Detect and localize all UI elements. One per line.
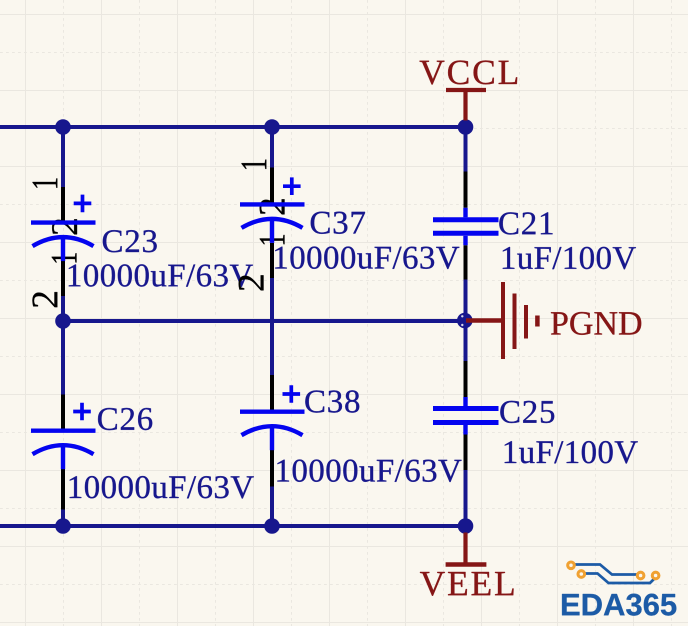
C23 pin 1 lead bbox=[61, 187, 65, 223]
PGND lead bbox=[466, 318, 503, 322]
junction dot bottom col1 bbox=[55, 518, 71, 534]
VEEL stem bbox=[463, 533, 467, 565]
capacitor C23 bbox=[31, 178, 253, 307]
VEEL label bbox=[420, 572, 514, 596]
C25 top stem bbox=[463, 397, 467, 406]
logo pad 2 bbox=[578, 571, 585, 578]
capacitor C38 bbox=[240, 375, 461, 487]
C38 curved plate bbox=[242, 426, 303, 435]
wire top horizontal net bbox=[0, 125, 466, 129]
junction dot bottom col3 bbox=[458, 518, 474, 534]
C21 pin 1 lead bbox=[464, 172, 468, 208]
C23 value 10000uF/63V bbox=[69, 264, 253, 286]
C26 curved plate bbox=[33, 445, 94, 454]
C23 pin name 1 bbox=[52, 253, 77, 262]
C23 curved plate bbox=[33, 237, 94, 246]
C23 positive plate bbox=[31, 220, 96, 224]
C37 value 10000uF/63V bbox=[275, 247, 459, 269]
C26 designator bbox=[98, 408, 152, 430]
C38 designator bbox=[305, 390, 359, 412]
PGND bar 4 bbox=[535, 316, 540, 327]
C37 pin 1 lead bbox=[270, 168, 274, 205]
power port VEEL bbox=[420, 533, 514, 596]
wire middle horizontal net bbox=[63, 319, 466, 323]
C26 polarity plus bbox=[73, 403, 91, 421]
C38 polarity plus bbox=[283, 385, 301, 403]
C25 value 1uF/100V bbox=[505, 441, 638, 463]
wire col1 top segment bbox=[61, 125, 65, 187]
C38 plate stem bbox=[270, 427, 274, 451]
power port PGND bbox=[466, 282, 641, 359]
PGND label bbox=[551, 312, 641, 335]
junction dot top col2 bbox=[264, 119, 280, 135]
C37 curved plate bbox=[242, 219, 303, 228]
C37 positive plate bbox=[240, 202, 305, 206]
capacitor C25 bbox=[433, 361, 638, 470]
C26 pin 2 lead bbox=[61, 469, 65, 510]
PGND bar 3 bbox=[524, 305, 528, 339]
C25 bottom plate bbox=[433, 420, 499, 425]
capacitor C37 bbox=[239, 160, 460, 291]
C25 top plate bbox=[433, 406, 499, 411]
C37 polarity plus bbox=[283, 177, 301, 195]
C26 pin 1 lead bbox=[61, 395, 65, 431]
wire col2 top segment bbox=[270, 125, 274, 168]
wire col1 bottom segment bbox=[61, 510, 65, 527]
VCCL label bbox=[420, 61, 518, 85]
junction dot middle col1 bbox=[55, 313, 71, 329]
C23 designator bbox=[103, 230, 157, 252]
logo wordmark EDA365 bbox=[562, 594, 676, 616]
C26 value 10000uF/63V bbox=[70, 476, 254, 498]
C23 polarity plus bbox=[74, 195, 92, 213]
C23 plate stem bbox=[61, 238, 65, 262]
C21 value 1uF/100V bbox=[503, 247, 636, 269]
power port VCCL bbox=[420, 61, 518, 121]
C37 plate stem bbox=[270, 219, 274, 243]
wire col3 top segment bbox=[464, 125, 468, 172]
C23 pin number 1 bbox=[33, 178, 58, 187]
wire col3 middle segment bbox=[464, 280, 468, 362]
logo pad 1 bbox=[568, 562, 575, 569]
C37 pin 2 lead bbox=[270, 243, 274, 278]
C26 positive plate bbox=[31, 429, 96, 433]
PGND bar 1 bbox=[501, 282, 505, 359]
wire col2 middle segment bbox=[270, 278, 274, 375]
VEEL bar bbox=[446, 562, 487, 567]
C37 pin name 2 bbox=[260, 199, 285, 214]
C37 designator bbox=[311, 212, 365, 234]
C38 pin 1 lead bbox=[270, 375, 274, 412]
C38 pin 2 lead bbox=[270, 450, 274, 487]
capacitor C21 bbox=[433, 172, 636, 280]
C37 pin number 1 bbox=[242, 160, 267, 169]
VCCL stem bbox=[463, 90, 467, 121]
junction ring middle col3 bbox=[457, 313, 473, 329]
C37 pin name 1 bbox=[260, 235, 285, 244]
C21 bottom stem bbox=[463, 236, 467, 245]
C26 plate stem bbox=[61, 446, 65, 470]
C25 pin 2 lead bbox=[464, 435, 468, 471]
wire col2 bottom segment bbox=[270, 487, 274, 527]
wire col3 bottom segment bbox=[464, 470, 468, 526]
logo trace A bbox=[575, 565, 638, 575]
C21 pin 2 lead bbox=[464, 245, 468, 279]
C25 designator bbox=[500, 401, 554, 423]
capacitor C26 bbox=[31, 395, 254, 510]
junction dot top col1 bbox=[55, 119, 71, 135]
C21 designator bbox=[499, 212, 552, 234]
C37 pin number 2 bbox=[239, 275, 264, 290]
junction dot top col3 bbox=[458, 119, 474, 135]
logo pad 3 bbox=[637, 572, 644, 579]
VCCL bar bbox=[446, 88, 486, 92]
C23 pin name 2 bbox=[52, 219, 77, 234]
C38 positive plate bbox=[240, 410, 305, 414]
EDA365 logo bbox=[562, 562, 676, 616]
C23 pin number 2 bbox=[32, 292, 57, 307]
C21 top plate bbox=[433, 217, 499, 222]
junction dot bottom col2 bbox=[264, 518, 280, 534]
logo trace B bbox=[584, 574, 656, 584]
C23 pin 2 lead bbox=[61, 261, 65, 296]
PGND bar 2 bbox=[513, 294, 517, 350]
C21 top stem bbox=[463, 208, 467, 218]
C21 bottom plate bbox=[433, 231, 499, 236]
C25 pin 1 lead bbox=[464, 361, 468, 397]
wire bottom horizontal net bbox=[0, 524, 466, 528]
C25 bottom stem bbox=[463, 425, 467, 435]
wire col1 middle segment bbox=[61, 296, 65, 395]
logo pad 4 bbox=[652, 572, 659, 579]
C38 value 10000uF/63V bbox=[277, 460, 461, 482]
